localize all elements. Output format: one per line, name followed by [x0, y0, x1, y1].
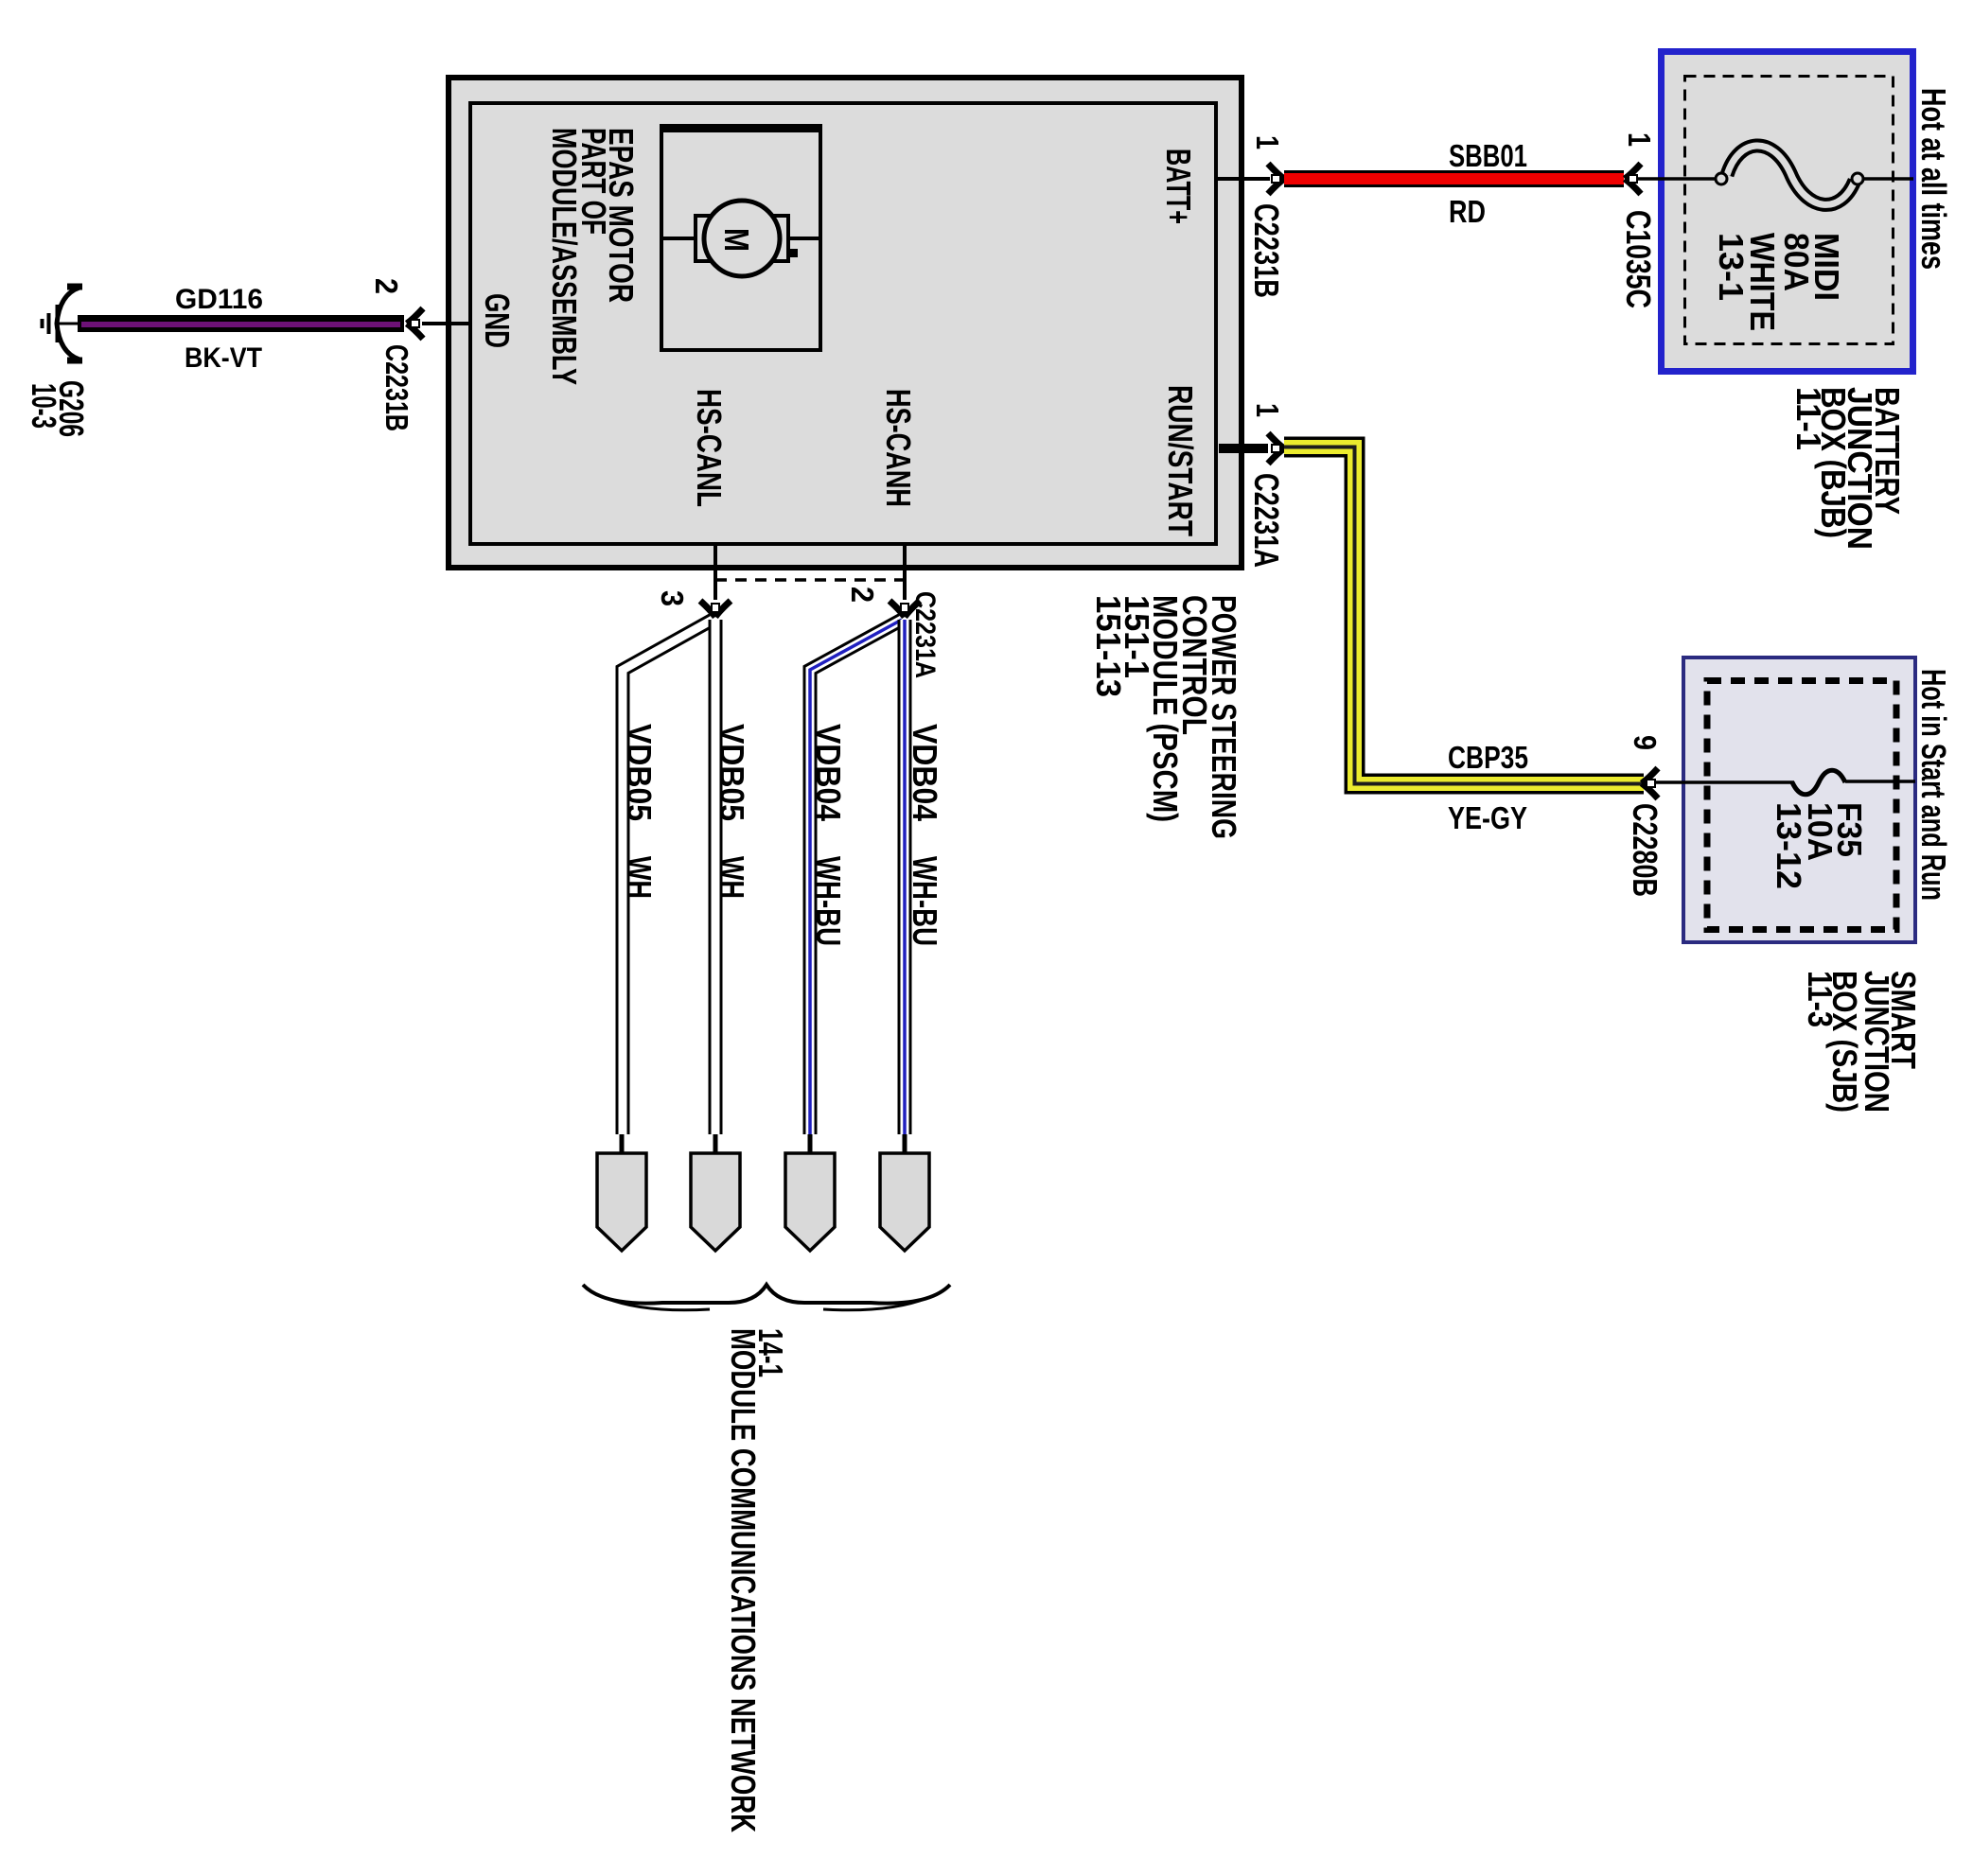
svg-text:Hot in Start and Run: Hot in Start and Run	[1914, 669, 1953, 901]
svg-text:C2231A: C2231A	[1247, 473, 1286, 568]
wire CBP35 YE-GY	[1284, 447, 1644, 784]
svg-text:WH-BU: WH-BU	[809, 856, 848, 946]
svg-text:SBB01: SBB01	[1449, 138, 1527, 173]
svg-text:HS-CANH: HS-CANH	[879, 389, 918, 507]
svg-text:WH-BU: WH-BU	[906, 856, 944, 946]
off-page terminator 4	[880, 1153, 929, 1251]
wire inside SJB left	[1654, 780, 1794, 784]
wire VDB05 WH (right of pair 1)	[709, 620, 723, 1134]
wire VDB04 WH-BU (left of pair 2)	[810, 620, 902, 1134]
svg-text:2: 2	[369, 278, 404, 294]
connector C2231B pin1 arrow	[1268, 164, 1284, 194]
svg-text:VDB05: VDB05	[713, 724, 751, 821]
svg-text:GD116: GD116	[175, 284, 263, 315]
svg-text:C2280B: C2280B	[1626, 803, 1665, 897]
wire RUN/START pin lead	[1219, 444, 1268, 453]
svg-text:WH: WH	[620, 856, 659, 899]
fuse label F35 10A 13-12	[1770, 802, 1869, 889]
connector C2231A pin2 arrow	[890, 601, 920, 617]
svg-text:VDB05: VDB05	[620, 724, 659, 821]
BJB dashed inner box	[1685, 77, 1894, 344]
fuse label MIDI 80A WHITE 13-1	[1712, 233, 1846, 331]
svg-text:CBP35: CBP35	[1448, 740, 1528, 775]
wire HS-CANL stub	[713, 546, 717, 600]
svg-text:9: 9	[1628, 735, 1663, 750]
wire HS-CANH stub	[903, 546, 907, 600]
ground G206 symbol	[43, 287, 83, 360]
wire label VDB04 WH-BU (wire 4)	[906, 724, 944, 946]
svg-text:Hot at all times: Hot at all times	[1914, 88, 1953, 270]
svg-text:13-12: 13-12	[1770, 802, 1808, 889]
wire core lead 3	[808, 1134, 813, 1155]
ground label G206 10-3	[25, 380, 91, 437]
svg-text:1: 1	[1250, 403, 1285, 417]
connector C2231A pin3 arrow	[700, 601, 731, 617]
svg-text:BK-VT: BK-VT	[185, 342, 262, 374]
BJB name block	[1789, 387, 1907, 550]
svg-text:WH: WH	[713, 856, 751, 899]
net label 14-1 MODULE COMMUNICATIONS NETWORK	[724, 1328, 790, 1832]
wire motor left	[663, 237, 696, 240]
svg-text:VDB04: VDB04	[906, 724, 944, 821]
off-page terminator 1	[597, 1153, 646, 1251]
wire GND pin lead	[422, 322, 470, 325]
wire label VDB05 WH (wire 1)	[620, 724, 659, 899]
connector C2231A pin1 arrow	[1268, 433, 1284, 464]
wire VDB05 WH (left of pair 1)	[623, 620, 713, 1134]
wire label VDB05 WH (wire 2)	[713, 724, 751, 899]
wire BATT+ pin lead	[1218, 177, 1270, 181]
svg-text:C2231A: C2231A	[909, 591, 941, 678]
svg-text:GND: GND	[478, 293, 517, 348]
wire SBB01 RD	[1284, 170, 1624, 187]
wire core lead 1	[620, 1134, 625, 1155]
SJB box	[1683, 657, 1915, 942]
svg-text:MODULE/ASSEMBLY: MODULE/ASSEMBLY	[545, 128, 584, 385]
wire core lead 4	[903, 1134, 907, 1155]
SJB dashed inner box	[1707, 681, 1896, 930]
svg-text:1: 1	[1250, 135, 1285, 149]
PSCM outer box	[449, 78, 1242, 568]
svg-text:RUN/START: RUN/START	[1161, 385, 1200, 536]
svg-text:151-13: 151-13	[1089, 595, 1128, 697]
motor brush right	[772, 216, 788, 261]
motor brush left	[696, 216, 712, 261]
connector C2280B arrow	[1642, 768, 1658, 798]
svg-text:10-3: 10-3	[25, 383, 63, 429]
label EPAS MOTOR PART OF MODULE/ASSEMBLY	[545, 128, 641, 385]
wire inside BJB right	[1863, 177, 1913, 181]
svg-text:3: 3	[655, 590, 690, 606]
twisted pair dashed tie	[715, 578, 905, 582]
BJB box	[1662, 52, 1913, 372]
wire motor right	[788, 237, 819, 240]
wire VDB04 WH-BU (right of pair 2)	[898, 620, 912, 1134]
connector C2231B pin2 arrow	[407, 308, 423, 339]
svg-text:RD: RD	[1449, 194, 1486, 229]
motor polarity dot	[789, 249, 798, 257]
SJB name block	[1801, 971, 1923, 1113]
svg-text:11-1: 11-1	[1789, 387, 1828, 450]
PSCM inner box	[470, 103, 1216, 544]
svg-text:VDB04: VDB04	[809, 724, 848, 821]
svg-text:C1035C: C1035C	[1619, 210, 1658, 308]
EPAS motor box	[660, 124, 822, 350]
connector C1035C arrow	[1625, 164, 1641, 194]
wire GD116 BK-VT	[78, 315, 404, 332]
svg-text:11-3: 11-3	[1801, 971, 1840, 1027]
svg-text:C2231B: C2231B	[1247, 203, 1286, 298]
svg-text:80A: 80A	[1777, 233, 1816, 291]
wire inside BJB left	[1637, 177, 1717, 181]
wire label VDB04 WH-BU (wire 3)	[809, 724, 848, 946]
PSCM name block	[1089, 595, 1243, 839]
svg-text:1: 1	[1622, 132, 1657, 147]
off-page terminator 3	[785, 1153, 835, 1251]
svg-text:2: 2	[845, 587, 880, 603]
brace	[583, 1285, 950, 1310]
wire inside SJB right	[1845, 780, 1915, 783]
off-page terminator 2	[691, 1153, 740, 1251]
svg-text:YE-GY: YE-GY	[1448, 800, 1527, 835]
fuse MIDI 80A fusible link	[1716, 146, 1863, 204]
svg-text:BATT+: BATT+	[1159, 149, 1198, 224]
svg-text:13-1: 13-1	[1712, 233, 1751, 301]
svg-text:M: M	[717, 228, 756, 252]
fuse F35 10A	[1792, 770, 1845, 795]
wire core lead 2	[713, 1134, 718, 1155]
svg-text:HS-CANL: HS-CANL	[690, 389, 729, 507]
svg-text:C2231B: C2231B	[379, 344, 414, 431]
motor M1 circle	[704, 201, 780, 276]
svg-text:MODULE COMMUNICATIONS NETWORK: MODULE COMMUNICATIONS NETWORK	[724, 1328, 763, 1832]
